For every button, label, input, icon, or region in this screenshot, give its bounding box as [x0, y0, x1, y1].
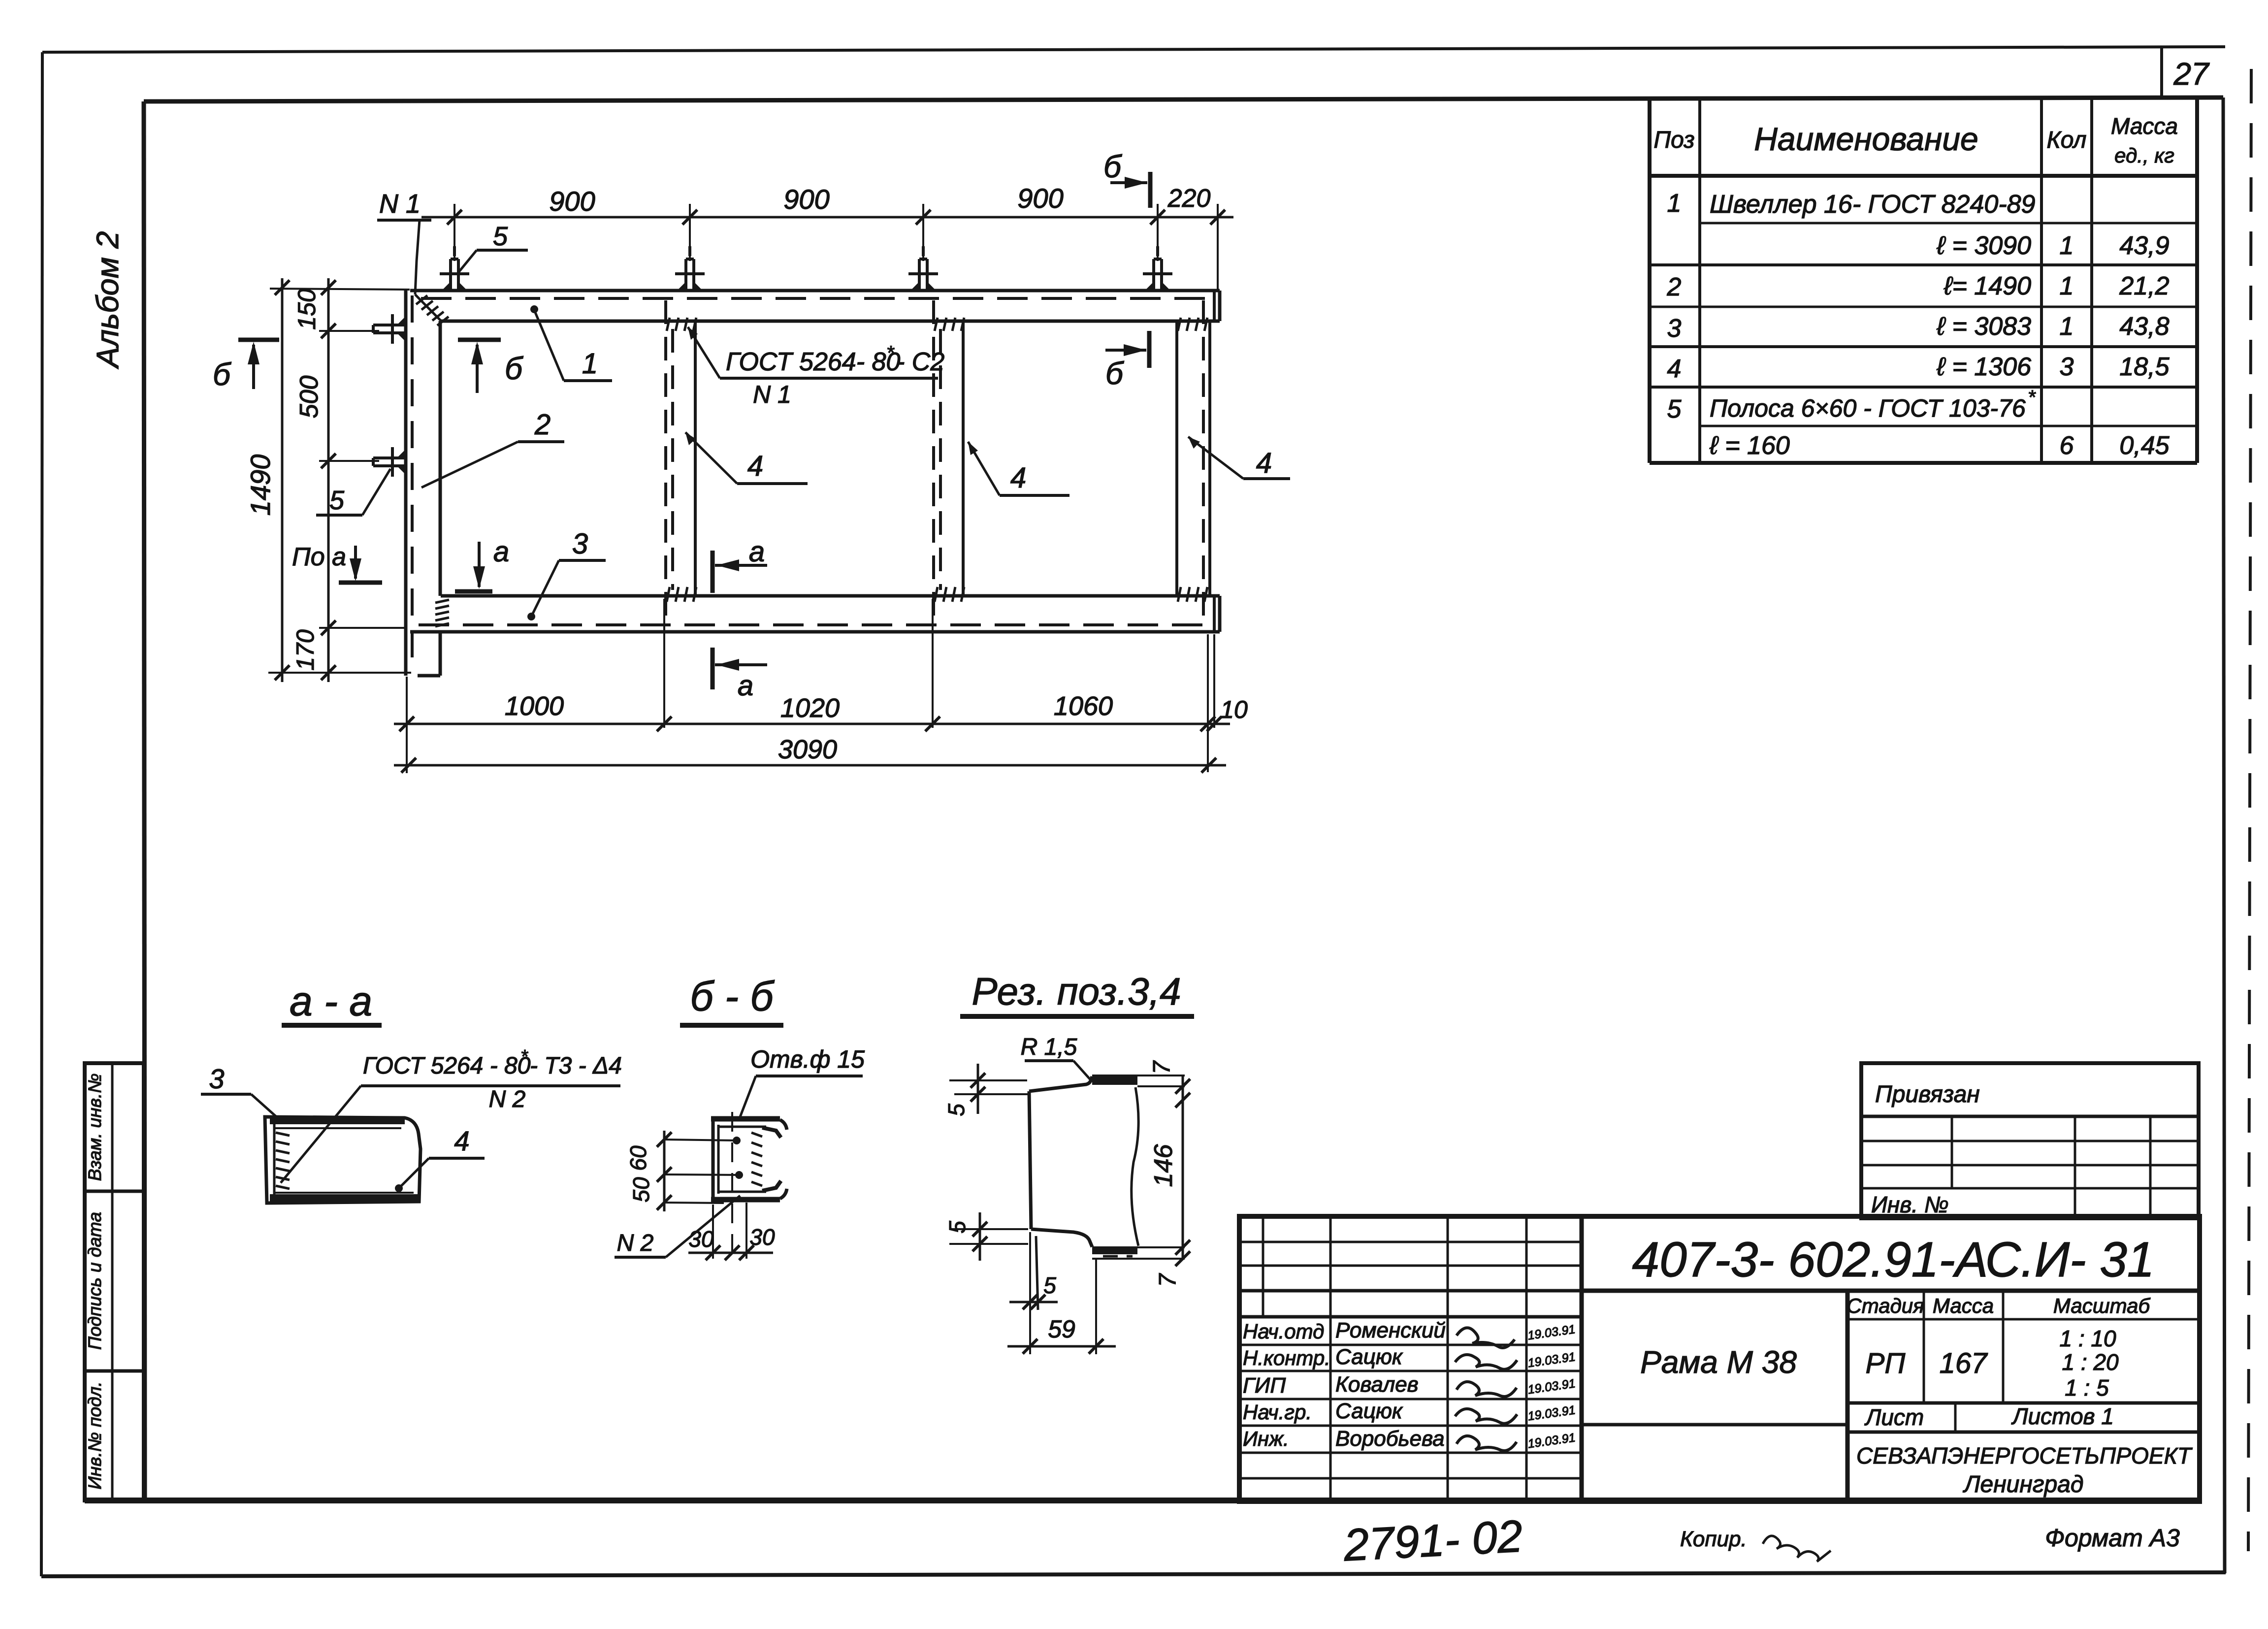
section mark a right lower [713, 648, 767, 702]
svg-text:1: 1 [2060, 231, 2074, 260]
top dim extension lines [454, 204, 1218, 290]
weld hatch on web [751, 1133, 762, 1186]
svg-text:2791- 02: 2791- 02 [1342, 1511, 1523, 1571]
svg-text:РП: РП [1866, 1347, 1906, 1379]
top dim ticks [447, 210, 1225, 225]
svg-text:ед., кг: ед., кг [2114, 144, 2174, 167]
svg-text:6: 6 [2060, 431, 2074, 460]
rez title [960, 970, 1194, 1016]
outer page border top [42, 47, 2225, 52]
svg-text:СЕВЗАПЭНЕРГОСЕТЬПРОЕКТ: СЕВЗАПЭНЕРГОСЕТЬПРОЕКТ [1856, 1443, 2193, 1468]
svg-text:ℓ= 1490: ℓ= 1490 [1944, 272, 2031, 300]
channel profile outline [1029, 1075, 1185, 1310]
signature scribbles [1455, 1328, 1517, 1451]
inner frame left [144, 101, 145, 1500]
svg-text:7: 7 [1155, 1272, 1181, 1287]
svg-text:30: 30 [749, 1224, 775, 1250]
parts list table [1650, 99, 2197, 463]
left post member 2 left edge [404, 290, 408, 676]
dim 5 upper left of profile [943, 1064, 1028, 1116]
svg-text:Н.контр.: Н.контр. [1243, 1346, 1330, 1369]
svg-text:ℓ = 3083: ℓ = 3083 [1936, 312, 2031, 341]
svg-text:б - б: б - б [690, 973, 775, 1019]
svg-text:59: 59 [1048, 1315, 1075, 1343]
label 5 top bolt [459, 222, 528, 272]
svg-text:1 : 20: 1 : 20 [2062, 1349, 2119, 1375]
inner frame bottom [85, 1498, 2200, 1503]
section mark a right upper [713, 536, 767, 593]
svg-text:1060: 1060 [1054, 691, 1113, 721]
top chord member 1 top edge [410, 289, 1220, 293]
svg-text:500: 500 [295, 376, 324, 419]
left post member 2 lower part [439, 632, 442, 676]
label 4 in section a-a [395, 1125, 485, 1192]
left margin stamp boxes [85, 1063, 144, 1500]
svg-text:60: 60 [625, 1145, 651, 1171]
svg-text:Нач.отд: Нач.отд [1243, 1320, 1324, 1343]
section mark b top right upper [1103, 149, 1150, 208]
svg-text:- Т3 - Δ4: - Т3 - Δ4 [530, 1053, 622, 1079]
svg-text:Поз: Поз [1653, 127, 1694, 153]
list / listov [1847, 1431, 2200, 1434]
svg-text:б: б [213, 357, 231, 392]
label 4 second cross member [968, 442, 1069, 495]
section mark a upper left [455, 536, 509, 591]
svg-text:170: 170 [292, 629, 319, 671]
left post member 2 right edge [439, 321, 442, 596]
svg-text:Роменский: Роменский [1335, 1318, 1446, 1342]
svg-text:а: а [749, 536, 765, 568]
svg-text:900: 900 [1017, 183, 1063, 214]
svg-text:4: 4 [1010, 462, 1026, 494]
svg-text:ГОСТ 5264- 80: ГОСТ 5264- 80 [726, 348, 900, 376]
svg-text:1490: 1490 [245, 455, 276, 516]
svg-text:N 1: N 1 [753, 381, 791, 408]
svg-text:Формат А3: Формат А3 [2045, 1524, 2180, 1552]
top chord right end cap [1213, 291, 1216, 321]
svg-text:1000: 1000 [505, 691, 564, 721]
svg-text:Стадия: Стадия [1847, 1294, 1924, 1317]
dim 5 bottom web thickness [1009, 1232, 1058, 1354]
svg-text:По а: По а [292, 543, 346, 571]
svg-text:5: 5 [329, 486, 345, 515]
svg-text:N 2: N 2 [617, 1230, 654, 1256]
svg-text:3: 3 [1667, 314, 1682, 343]
svg-text:ℓ = 3090: ℓ = 3090 [1936, 231, 2031, 260]
outer page border right (dashed) [2248, 69, 2251, 1551]
sheet number box 27 [2162, 48, 2210, 98]
label 3 bottom chord [527, 528, 606, 620]
svg-text:ГОСТ 5264 - 80: ГОСТ 5264 - 80 [363, 1053, 531, 1079]
svg-text:Подпись и дата: Подпись и дата [85, 1212, 105, 1350]
left dim line 150/500/170 [327, 278, 330, 682]
svg-text:*: * [520, 1046, 528, 1067]
bottom chord hidden flange line [419, 623, 1211, 626]
svg-text:220: 220 [1167, 184, 1211, 213]
svg-text:а: а [738, 670, 753, 702]
hole label Otv f15 [740, 1045, 865, 1117]
weld label GOST 5264-80-T3-D4 N2 [281, 1046, 622, 1183]
svg-text:*: * [2028, 387, 2036, 408]
dim 146 right of profile [1149, 1060, 1190, 1287]
doc number box [1582, 1289, 2200, 1293]
outer page border left [41, 52, 42, 1576]
svg-text:- С2: - С2 [896, 348, 944, 376]
svg-text:43,8: 43,8 [2119, 312, 2169, 341]
svg-text:2: 2 [1667, 273, 1682, 301]
inner frame top [144, 98, 2223, 101]
cross member 4 right end [1175, 321, 1178, 596]
svg-text:а: а [493, 536, 509, 568]
label R1,5 [1021, 1034, 1090, 1079]
svg-text:Ленинград: Ленинград [1963, 1471, 2084, 1498]
svg-text:ℓ = 1306: ℓ = 1306 [1936, 353, 2031, 381]
svg-text:3090: 3090 [778, 735, 837, 764]
svg-text:N 2: N 2 [489, 1086, 526, 1112]
svg-text:0,45: 0,45 [2119, 431, 2170, 460]
label 5 side bolt [316, 469, 390, 515]
svg-text:Копир.: Копир. [1680, 1527, 1747, 1551]
svg-text:*: * [886, 342, 895, 364]
weld hatch in section a-a [276, 1133, 290, 1189]
weld label N1 top left [377, 189, 431, 294]
stadia/massa/masshtab [1846, 1291, 1850, 1501]
svg-text:Масса: Масса [2111, 113, 2178, 139]
svg-text:4: 4 [454, 1125, 469, 1156]
label 3 in section a-a [201, 1063, 279, 1119]
outer page border bottom [41, 1572, 2226, 1576]
svg-text:Воробьева: Воробьева [1335, 1427, 1445, 1451]
svg-text:б: б [1105, 356, 1124, 391]
svg-text:Ковалев: Ковалев [1335, 1372, 1419, 1397]
svg-text:407-3- 602.91-АС.И- 31: 407-3- 602.91-АС.И- 31 [1632, 1232, 2155, 1287]
svg-text:R 1,5: R 1,5 [1021, 1034, 1077, 1060]
name box [1582, 1423, 1847, 1427]
left dim line 1490 [281, 278, 284, 682]
hole centre line dashed [731, 1112, 733, 1256]
svg-text:Швеллер 16- ГОСТ 8240-89: Швеллер 16- ГОСТ 8240-89 [1710, 190, 2035, 219]
anchor bolts 5 on top chord [440, 246, 469, 291]
bottom chord member 3 top edge [441, 594, 1220, 598]
svg-text:Рез. поз.3,4: Рез. поз.3,4 [972, 970, 1181, 1013]
svg-text:Сацюк: Сацюк [1335, 1345, 1403, 1369]
svg-text:Масса: Масса [1933, 1294, 1994, 1317]
sig table horizontals [1239, 1242, 1582, 1478]
svg-text:1: 1 [2060, 272, 2074, 300]
dims 60/50 left of section b-b [625, 1131, 743, 1211]
svg-text:5: 5 [944, 1221, 970, 1234]
dim 59 bottom of profile [1007, 1259, 1116, 1354]
section mark b inner left [458, 340, 523, 393]
svg-text:43,9: 43,9 [2119, 231, 2169, 260]
svg-text:21,2: 21,2 [2119, 272, 2169, 300]
svg-text:1: 1 [582, 348, 598, 380]
section b-b channel body [711, 1118, 787, 1202]
svg-text:7: 7 [1149, 1060, 1175, 1074]
svg-text:146: 146 [1149, 1144, 1178, 1187]
svg-text:б: б [505, 351, 523, 386]
dims 30/30 below section b-b [688, 1203, 775, 1260]
svg-text:Отв.ф 15: Отв.ф 15 [750, 1045, 865, 1073]
dim 5 lower left of profile [944, 1212, 1028, 1261]
svg-text:1 : 10: 1 : 10 [2059, 1326, 2116, 1351]
left post member 2 bottom cap [418, 674, 440, 678]
inner frame right [2223, 98, 2225, 1573]
weld label N2 in section b-b [615, 1196, 740, 1257]
weld seam at bottom chord left end [435, 600, 449, 626]
side bolts 5 on left post [373, 314, 406, 344]
svg-text:Полоса 6×60 - ГОСТ 103-76: Полоса 6×60 - ГОСТ 103-76 [1710, 394, 2026, 422]
svg-text:Привязан: Привязан [1875, 1081, 1980, 1108]
top dimension line 900x3+220 [421, 216, 1233, 219]
section a-a title [282, 978, 382, 1025]
svg-text:Кол: Кол [2047, 127, 2087, 153]
svg-text:5: 5 [1043, 1272, 1056, 1298]
sig table verticals [1262, 1216, 1264, 1317]
svg-text:3: 3 [572, 528, 588, 560]
svg-text:ℓ = 160: ℓ = 160 [1709, 431, 1790, 460]
weld label GOST 5264-80-C2 N1 [688, 327, 944, 408]
weld tick marks at cross member joints [667, 318, 1207, 602]
svg-text:Инв.№ подл.: Инв.№ подл. [85, 1381, 105, 1489]
overall dimension line 3090 [394, 764, 1226, 767]
section a-a body [265, 1117, 421, 1203]
svg-text:1: 1 [1667, 189, 1682, 218]
svg-text:а - а: а - а [290, 978, 372, 1024]
svg-text:5: 5 [493, 222, 508, 251]
svg-text:5: 5 [1667, 395, 1682, 424]
svg-text:Альбом 2: Альбом 2 [91, 231, 125, 370]
svg-text:30: 30 [688, 1226, 714, 1252]
bottom dimension line 1000/1020/1060/10 [394, 723, 1230, 725]
label 4 first cross member [685, 432, 808, 484]
label 2 left post [421, 409, 564, 488]
svg-text:1 : 5: 1 : 5 [2065, 1375, 2109, 1401]
svg-text:27: 27 [2173, 56, 2210, 92]
svg-text:Взам. инв.№: Взам. инв.№ [85, 1074, 105, 1181]
svg-text:150: 150 [293, 289, 321, 330]
svg-text:900: 900 [783, 184, 829, 215]
label 4 right end member [1188, 437, 1290, 479]
svg-text:10: 10 [1220, 696, 1248, 723]
svg-text:2: 2 [534, 409, 551, 441]
corner weld seam hatch [415, 294, 449, 326]
svg-text:18,5: 18,5 [2119, 353, 2170, 381]
svg-text:Масштаб: Масштаб [2053, 1294, 2151, 1317]
svg-text:Инж.: Инж. [1243, 1427, 1289, 1450]
view mark Po a [292, 543, 382, 583]
section b-b title [680, 973, 783, 1025]
svg-text:Листов 1: Листов 1 [2011, 1403, 2114, 1429]
svg-text:4: 4 [1667, 355, 1682, 383]
svg-text:4: 4 [1256, 447, 1272, 479]
svg-text:167: 167 [1940, 1347, 1989, 1379]
svg-text:б: б [1103, 149, 1122, 184]
label 1 top chord [530, 305, 612, 381]
svg-text:1: 1 [2060, 312, 2074, 341]
section mark b far left [213, 340, 279, 392]
left post member 2 hidden line [411, 295, 414, 670]
bottom chord right end cap [1213, 596, 1216, 632]
top chord hidden flange line [421, 297, 1211, 300]
bottom chord member 3 bottom edge [410, 630, 1220, 634]
svg-text:Нач.гр.: Нач.гр. [1243, 1401, 1312, 1424]
svg-text:50: 50 [628, 1177, 654, 1203]
svg-text:900: 900 [549, 186, 595, 217]
svg-text:Лист: Лист [1864, 1404, 1924, 1430]
svg-text:3: 3 [2060, 353, 2074, 381]
svg-text:3: 3 [209, 1063, 224, 1094]
cross member 4 second (hidden) [932, 300, 935, 623]
svg-text:Наименование: Наименование [1754, 121, 1978, 157]
svg-text:5: 5 [943, 1104, 969, 1116]
svg-text:Инв. №: Инв. № [1871, 1192, 1949, 1217]
kopir note [1680, 1527, 1831, 1562]
svg-text:4: 4 [747, 450, 763, 482]
top chord member 1 bottom edge [441, 320, 1220, 323]
svg-text:Рама М 38: Рама М 38 [1640, 1344, 1797, 1380]
svg-text:ГИП: ГИП [1243, 1373, 1286, 1398]
section mark b right lower [1105, 331, 1149, 391]
cross member 4 first (hidden) [664, 300, 667, 623]
svg-text:N 1: N 1 [379, 189, 421, 219]
svg-text:Сацюк: Сацюк [1335, 1399, 1403, 1423]
svg-text:1020: 1020 [780, 693, 840, 723]
